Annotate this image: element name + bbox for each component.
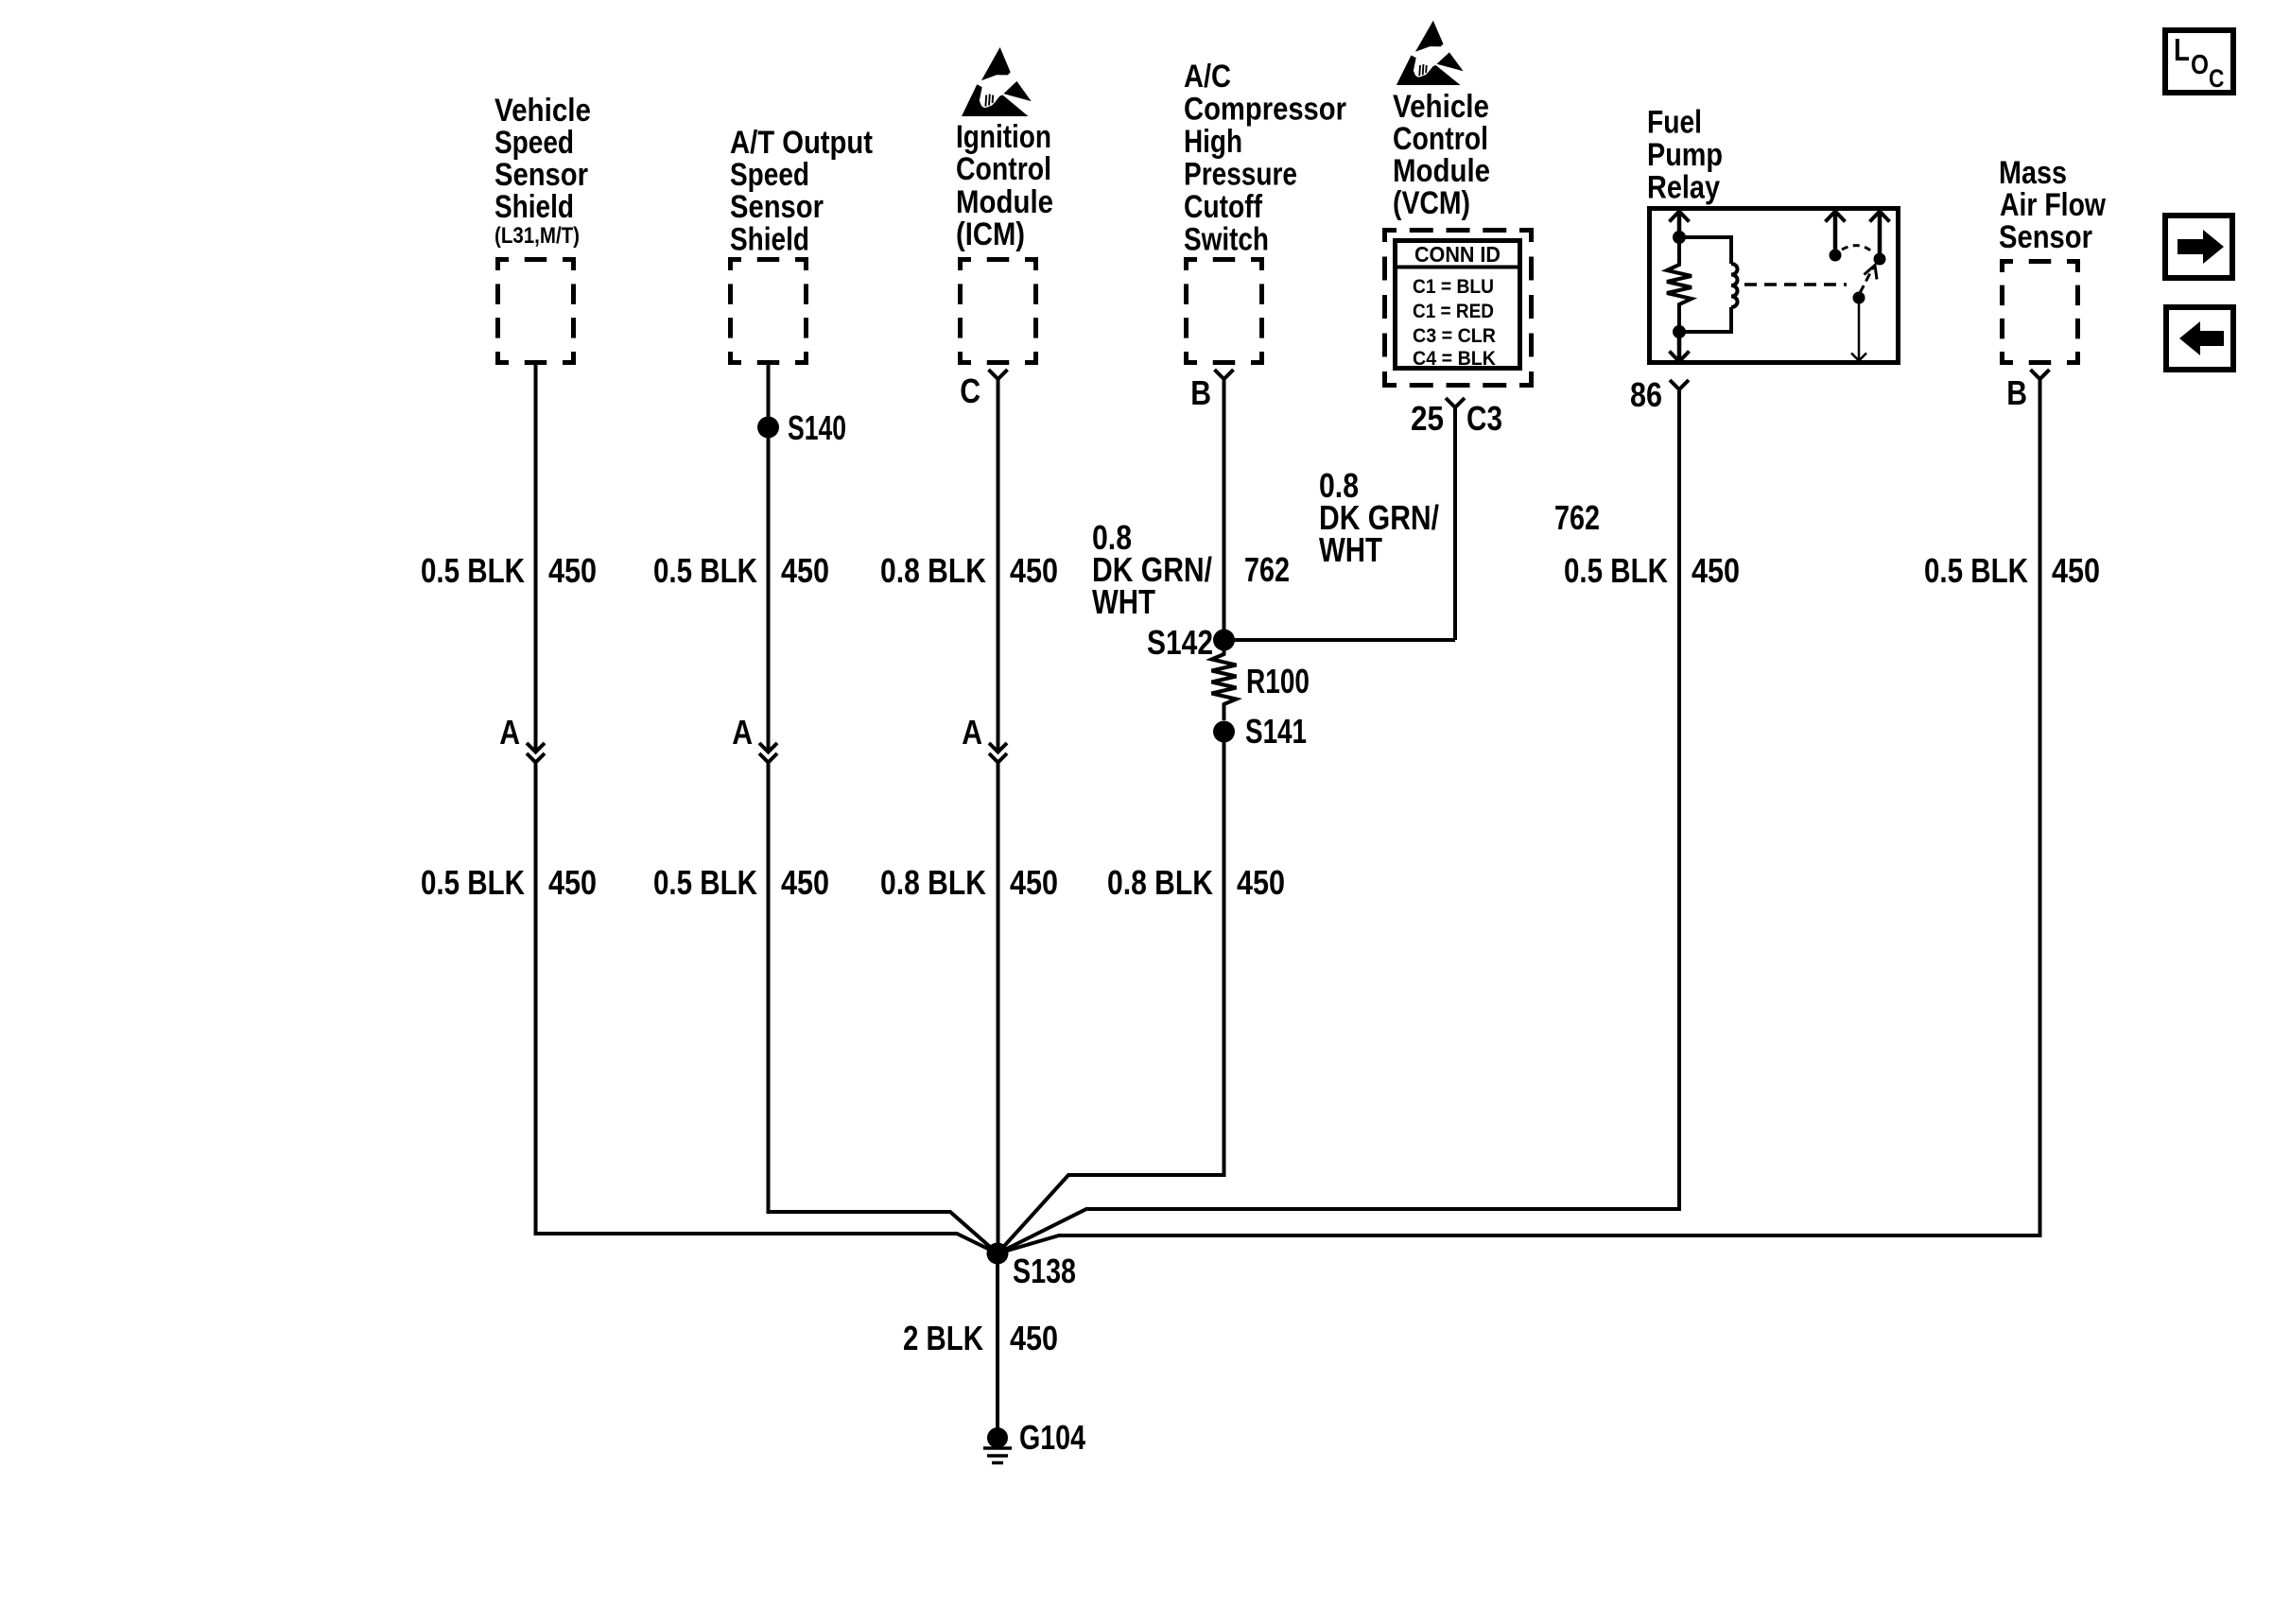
svg-text:Switch: Switch (1184, 222, 1269, 258)
connector pin B (MAF) (2031, 370, 2050, 379)
svg-text:C3: C3 (1466, 399, 1502, 438)
wire: S142 to VCM pin 25 (1224, 638, 1456, 642)
svg-text:C1 = BLU: C1 = BLU (1413, 276, 1494, 298)
svg-text:Fuel: Fuel (1647, 105, 1702, 141)
relay resistor (1667, 237, 1692, 332)
resistor R100 (1212, 640, 1237, 720)
svg-text:450: 450 (781, 551, 829, 590)
connector box: A/C High Pressure Cutoff Switch (1184, 257, 1264, 262)
wire: VCM pin 25 down to S142 branch (1453, 407, 1457, 640)
splice S141 (1213, 721, 1235, 743)
svg-text:O: O (2191, 50, 2209, 80)
left arrow legend box (2166, 307, 2233, 370)
svg-text:Vehicle: Vehicle (1393, 89, 1489, 125)
LOC legend box (2165, 30, 2233, 93)
svg-text:450: 450 (548, 551, 597, 590)
splice S142 (1213, 630, 1235, 651)
connector pin B (A/C switch) (1215, 370, 1234, 379)
svg-text:(ICM): (ICM) (956, 216, 1025, 252)
relay dotted link between contacts (1842, 246, 1873, 252)
svg-text:450: 450 (548, 863, 597, 902)
connector pin 25 C3 (VCM) (1446, 398, 1465, 407)
svg-text:CONN ID: CONN ID (1414, 242, 1501, 267)
svg-text:Shield: Shield (730, 222, 809, 258)
svg-text:S138: S138 (1013, 1252, 1076, 1290)
wire: S141 to S138 (998, 732, 1224, 1253)
svg-text:(L31,M/T): (L31,M/T) (495, 223, 580, 249)
svg-text:S141: S141 (1245, 712, 1307, 751)
svg-text:0.5 BLK: 0.5 BLK (653, 863, 757, 902)
svg-text:450: 450 (1692, 551, 1740, 590)
svg-text:C4 = BLK: C4 = BLK (1413, 348, 1496, 370)
svg-text:A/C: A/C (1184, 59, 1231, 95)
wire: VSS shield drain upper segment (534, 365, 538, 752)
wire: A/T shield upper segment (767, 365, 771, 752)
svg-text:Vehicle: Vehicle (495, 93, 591, 129)
svg-text:Control: Control (1393, 121, 1488, 157)
svg-text:450: 450 (1010, 1319, 1058, 1357)
ESD static-sensitive symbol (VCM) (1397, 21, 1464, 85)
connector box: Ignition Control Module (958, 257, 1038, 262)
splice S140 (757, 417, 779, 439)
VCM dashed box (1382, 228, 1534, 233)
wire: S138 to G104 (996, 1253, 999, 1428)
wire: VSS shield lower segment to S138 (536, 762, 998, 1253)
svg-text:C1 = RED: C1 = RED (1413, 301, 1494, 322)
svg-text:Sensor: Sensor (495, 157, 588, 193)
wire: ICM ground upper segment (997, 379, 1000, 752)
svg-text:450: 450 (1237, 863, 1285, 902)
svg-text:Pressure: Pressure (1184, 157, 1297, 193)
svg-text:Speed: Speed (730, 157, 809, 193)
svg-text:B: B (2006, 373, 2027, 412)
connector box: A/T Output Speed Sensor Shield (728, 257, 808, 262)
svg-text:450: 450 (1010, 863, 1058, 902)
wire: relay 86 to S138 (998, 389, 1679, 1253)
svg-text:A: A (962, 713, 982, 752)
splice S138 (987, 1243, 1009, 1265)
relay switch arm (1853, 292, 1865, 304)
relay common pin 30 down arrow (1858, 298, 1861, 360)
svg-text:762: 762 (1244, 550, 1290, 589)
wire: ICM ground lower segment to S138 (997, 762, 1000, 1253)
relay pin 86 down arrow (1677, 332, 1682, 361)
svg-text:L: L (2174, 32, 2190, 67)
svg-text:0.5 BLK: 0.5 BLK (1924, 551, 2028, 590)
svg-text:WHT: WHT (1092, 582, 1155, 621)
svg-text:0.8 BLK: 0.8 BLK (1107, 863, 1213, 902)
relay junction top (1673, 231, 1686, 244)
svg-text:Speed: Speed (495, 125, 574, 161)
svg-text:Module: Module (956, 184, 1053, 220)
svg-text:S140: S140 (788, 408, 846, 447)
svg-text:B: B (1190, 373, 1211, 412)
svg-text:0.5 BLK: 0.5 BLK (1564, 551, 1668, 590)
svg-text:450: 450 (2052, 551, 2100, 590)
svg-text:A: A (732, 713, 753, 752)
relay junction bottom (1673, 325, 1686, 338)
relay contact pin up arrow (87A) (1830, 250, 1842, 262)
svg-text:Control: Control (956, 151, 1051, 187)
svg-text:Shield: Shield (495, 189, 574, 225)
svg-text:(VCM): (VCM) (1393, 185, 1470, 221)
svg-text:0.8 BLK: 0.8 BLK (880, 551, 986, 590)
svg-text:Sensor: Sensor (1999, 219, 2092, 255)
wire: A/T shield lower segment to S138 (769, 762, 998, 1253)
svg-text:Mass: Mass (1999, 155, 2067, 191)
svg-text:0.5 BLK: 0.5 BLK (421, 863, 525, 902)
svg-text:High: High (1184, 124, 1242, 160)
svg-text:A/T Output: A/T Output (730, 125, 873, 161)
connector pin 86 (relay) (1670, 380, 1689, 389)
svg-text:WHT: WHT (1319, 530, 1382, 569)
wire: MAF ground to S138 (998, 379, 2040, 1253)
svg-text:2 BLK: 2 BLK (903, 1319, 983, 1357)
connector pin C (ICM) (989, 370, 1008, 379)
svg-text:G104: G104 (1019, 1418, 1085, 1457)
svg-text:86: 86 (1630, 375, 1662, 414)
svg-text:Air Flow: Air Flow (2000, 187, 2106, 223)
svg-text:Compressor: Compressor (1184, 92, 1346, 128)
connector box: Vehicle Speed Sensor Shield (495, 257, 576, 262)
svg-text:C: C (960, 371, 980, 410)
relay coil branch (1679, 237, 1731, 264)
svg-text:762: 762 (1554, 498, 1600, 537)
svg-text:Relay: Relay (1647, 170, 1720, 206)
svg-text:Cutoff: Cutoff (1184, 189, 1263, 225)
svg-text:R100: R100 (1246, 662, 1310, 700)
svg-text:450: 450 (781, 863, 829, 902)
relay contact pin up arrow (87) (1874, 253, 1886, 266)
right arrow legend box (2165, 216, 2232, 278)
svg-text:0.5 BLK: 0.5 BLK (421, 551, 525, 590)
svg-text:0.8 BLK: 0.8 BLK (880, 863, 986, 902)
ground G104 (987, 1427, 1008, 1448)
svg-text:Pump: Pump (1647, 137, 1723, 173)
svg-text:450: 450 (1010, 551, 1058, 590)
svg-text:A: A (499, 713, 520, 752)
CONN ID table (1396, 241, 1520, 369)
svg-text:C: C (2209, 64, 2224, 93)
wire: A/C switch to S142 (1223, 379, 1226, 640)
svg-text:0.5 BLK: 0.5 BLK (653, 551, 757, 590)
svg-text:Module: Module (1393, 153, 1490, 189)
relay mech dashed link (1744, 283, 1847, 286)
connector box: Mass Air Flow Sensor (2000, 259, 2080, 264)
svg-text:C3 = CLR: C3 = CLR (1413, 325, 1496, 347)
svg-text:Sensor: Sensor (730, 189, 824, 225)
svg-text:25: 25 (1411, 399, 1444, 438)
svg-text:Ignition: Ignition (956, 119, 1051, 155)
svg-text:S142: S142 (1147, 623, 1213, 662)
relay coil feed pin 86: up arrow (1677, 212, 1682, 237)
relay box (1650, 209, 1899, 363)
ESD static-sensitive symbol (ICM) (962, 47, 1032, 116)
